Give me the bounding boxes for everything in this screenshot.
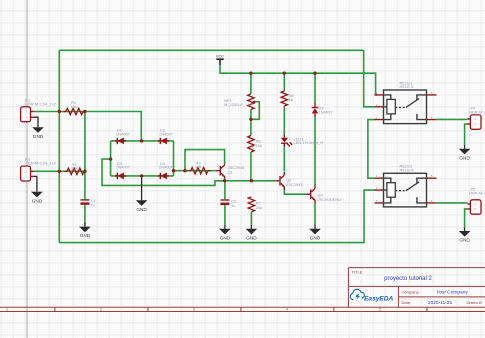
connector P3 bbox=[21, 157, 57, 181]
wire bottom bus bbox=[59, 190, 375, 243]
junction node R5/R7 emitter row bbox=[250, 179, 253, 182]
gnd of P3 bbox=[31, 176, 43, 203]
wire vertical x85 to C1 bbox=[84, 112, 86, 200]
wire R6 to LED1 bbox=[283, 106, 285, 135]
sheet left edge line bbox=[26, 0, 28, 338]
svg-text:VCC: VCC bbox=[216, 54, 224, 58]
resistor R3 bbox=[189, 160, 211, 174]
wire P2 row bbox=[34, 112, 142, 141]
wire top-right to relay1 coil pin2 bbox=[364, 50, 375, 107]
wire C2 to gnd bbox=[224, 205, 226, 225]
svg-text:1: 1 bbox=[6, 308, 8, 312]
transistor Q3 bbox=[307, 185, 342, 203]
wire bridge right vertical bbox=[173, 141, 175, 176]
svg-text:RELE-5: RELE-5 bbox=[400, 84, 415, 89]
LED LED1 bbox=[281, 135, 323, 147]
wire P3 row bbox=[34, 170, 85, 172]
resistor R1 bbox=[64, 100, 87, 115]
connector P5 bbox=[467, 187, 485, 215]
frame zone numbers bbox=[6, 308, 381, 312]
wire R3 row bbox=[174, 170, 217, 172]
wire R5 to emitter row bbox=[250, 152, 252, 181]
wire NP1 column bbox=[250, 73, 252, 94]
svg-text:Q1: Q1 bbox=[228, 170, 234, 175]
junction node bridge bottom center bbox=[140, 174, 143, 177]
svg-text:3: 3 bbox=[193, 308, 195, 312]
junction node bridge top center bbox=[140, 139, 143, 142]
svg-text:2SC9013-HD: 2SC9013-HD bbox=[317, 197, 341, 202]
svg-text:LED-TH-3mm_R: LED-TH-3mm_R bbox=[294, 140, 324, 145]
svg-text:TITLE:: TITLE: bbox=[352, 269, 364, 274]
resistor R5 bbox=[248, 136, 262, 152]
connector P4 bbox=[467, 106, 485, 130]
svg-text:M_2200uF_10x: M_2200uF_10x bbox=[224, 102, 252, 107]
diode D1 bbox=[115, 128, 131, 145]
svg-text:1N4007: 1N4007 bbox=[319, 110, 334, 115]
wire relay2 NO to P5 bbox=[436, 202, 468, 204]
gnd of bridge bbox=[136, 176, 148, 212]
title block box bbox=[348, 268, 485, 308]
gnd of R7 bbox=[246, 225, 258, 240]
svg-text:4: 4 bbox=[286, 308, 288, 312]
resistor R6 bbox=[281, 91, 294, 106]
wire NP1 to R5 bbox=[250, 110, 252, 136]
wire D5 column top bbox=[314, 73, 316, 102]
wire R7 to gnd bbox=[250, 212, 252, 225]
wire VCC row bbox=[220, 65, 377, 95]
wire relay1 NO to P4 bbox=[436, 118, 468, 120]
gnd of Q3 bbox=[309, 225, 321, 240]
transistor Q1 bbox=[216, 164, 245, 179]
junction node bridge left tap bbox=[109, 157, 112, 160]
svg-text:1N4007: 1N4007 bbox=[116, 165, 131, 170]
junction node bridge right / R3 row bbox=[172, 169, 175, 172]
wire bridge left vertical bbox=[110, 141, 112, 176]
wire R6 column bbox=[283, 73, 285, 91]
svg-text:10k: 10k bbox=[71, 104, 77, 109]
EasyEDA logo bbox=[350, 289, 393, 302]
gnd of C2 bbox=[219, 225, 231, 240]
svg-text:HDR-M-2.5: HDR-M-2.5 bbox=[469, 190, 485, 195]
junction node Q1 emitter bbox=[223, 179, 226, 182]
wire NP1 wiper loop bbox=[251, 102, 259, 120]
svg-text:proyecto tutorial 2: proyecto tutorial 2 bbox=[384, 276, 432, 282]
diode D2 bbox=[158, 128, 174, 145]
svg-text:Date:: Date: bbox=[402, 300, 412, 305]
svg-text:1N4007: 1N4007 bbox=[159, 165, 174, 170]
gnd of P4 bbox=[459, 146, 471, 161]
svg-text:10k: 10k bbox=[195, 164, 201, 169]
junction node VCC/D5 bbox=[313, 72, 316, 75]
wire top bus bbox=[59, 49, 363, 51]
svg-text:Company:: Company: bbox=[402, 290, 420, 295]
svg-text:2: 2 bbox=[100, 308, 102, 312]
diode D4 bbox=[158, 161, 174, 180]
wire C2 column bbox=[224, 181, 226, 199]
junction node VCC/NP1 bbox=[249, 72, 252, 75]
wire left vertical bbox=[58, 50, 60, 242]
relay RELE1 bbox=[375, 80, 437, 123]
diode D3 bbox=[115, 161, 131, 180]
svg-text:1u: 1u bbox=[231, 203, 235, 208]
svg-text:10k: 10k bbox=[71, 166, 77, 171]
svg-text:5: 5 bbox=[379, 308, 381, 312]
connector P2 bbox=[21, 98, 57, 122]
resistor R7 bbox=[248, 197, 262, 212]
frame zone ticks bbox=[55, 307, 427, 311]
svg-text:EasyEDA: EasyEDA bbox=[364, 295, 394, 302]
svg-text:1u: 1u bbox=[91, 202, 95, 207]
diode D5 bbox=[312, 103, 334, 117]
wire bridge top row bbox=[111, 140, 174, 142]
wire Q1 emitter stub bbox=[224, 179, 226, 181]
svg-text:20k: 20k bbox=[256, 205, 262, 210]
wire LED1 to Q2 collector bbox=[283, 146, 285, 172]
wire Q1 collector loop bbox=[185, 150, 225, 171]
svg-text:Your Company: Your Company bbox=[436, 290, 468, 296]
junction node NP1 loop bottom bbox=[249, 118, 252, 121]
svg-text:1N4007: 1N4007 bbox=[116, 131, 131, 136]
wire C1 to gnd bbox=[84, 205, 86, 224]
svg-text:1N4007: 1N4007 bbox=[159, 131, 174, 136]
resistor R2 bbox=[65, 162, 87, 175]
potentiometer NP1 bbox=[224, 94, 256, 110]
junction node P3/left rail bbox=[58, 170, 61, 173]
wire P5 pin2 to gnd bbox=[465, 209, 468, 228]
wire bridge bottom row bbox=[111, 175, 174, 177]
transistor Q2 bbox=[276, 172, 304, 190]
gnd of P5 bbox=[459, 228, 471, 243]
gnd of C1 bbox=[79, 223, 91, 239]
junction node VCC/R6 bbox=[283, 72, 286, 75]
junction node R2 out bbox=[83, 170, 86, 173]
frame bottom border bbox=[0, 307, 485, 311]
wire P4 pin2 to gnd bbox=[465, 124, 468, 146]
wire D5 to Q3 collector bbox=[314, 117, 316, 186]
svg-text:2020-11-25: 2020-11-25 bbox=[428, 300, 453, 306]
wire Q3 emitter to gnd bbox=[314, 203, 316, 225]
gnd of P2 bbox=[32, 117, 44, 139]
wire Q2 emitter to Q3 base bbox=[284, 190, 306, 195]
svg-text:HDR-M-2.54_1x2: HDR-M-2.54_1x2 bbox=[25, 161, 57, 166]
svg-text:1k: 1k bbox=[289, 97, 293, 102]
wire relay1 pin3 to relay2 pin1 bbox=[368, 120, 375, 179]
capacitor C2 bbox=[220, 199, 236, 208]
svg-text:RELE-5: RELE-5 bbox=[400, 168, 415, 173]
VCC symbol bbox=[216, 54, 224, 64]
junction node R1 out bbox=[83, 110, 86, 113]
junction node P2/left rail bbox=[58, 110, 61, 113]
svg-text:HDR-M-2.5: HDR-M-2.5 bbox=[469, 109, 485, 114]
relay RELE2 bbox=[375, 164, 437, 207]
wire bridge tap to emitter row bbox=[102, 159, 276, 185]
junction node loop / R3 row bbox=[183, 169, 186, 172]
svg-text:Drawn B: Drawn B bbox=[467, 300, 483, 305]
svg-text:10k: 10k bbox=[256, 143, 262, 148]
svg-text:2SC2945: 2SC2945 bbox=[286, 182, 303, 187]
svg-text:HDR-M-2.54_1x2: HDR-M-2.54_1x2 bbox=[25, 101, 57, 106]
capacitor C1 bbox=[80, 198, 96, 207]
